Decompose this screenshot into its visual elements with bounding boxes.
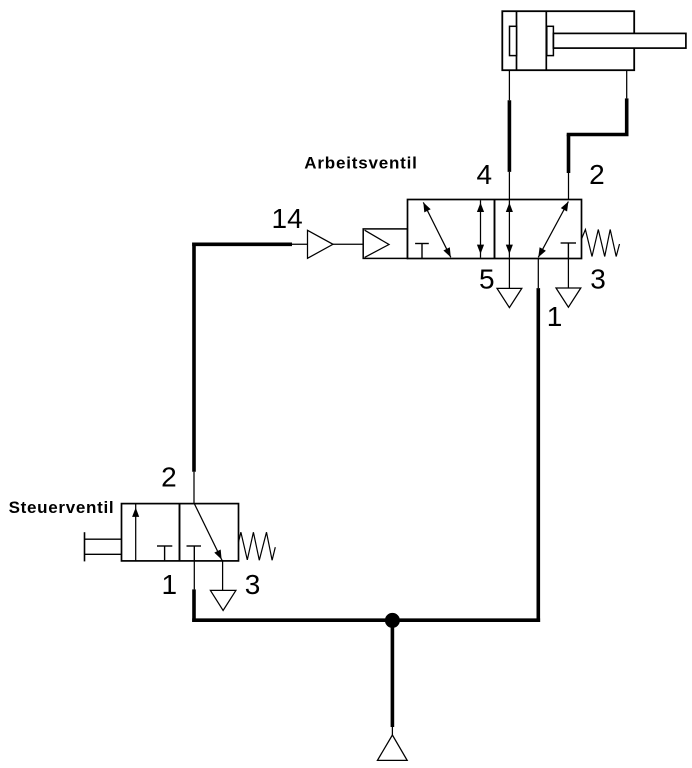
- pilot actuator triangle: [365, 230, 389, 257]
- valve V2 left box blocked port T: [157, 546, 172, 561]
- wire 14 horizontal (thick): [192, 243, 292, 247]
- svg-text:1: 1: [547, 301, 563, 332]
- compressed air source triangle: [377, 735, 407, 760]
- valve V2 right box blocked port T (1): [187, 546, 202, 561]
- exhaust 5 stub: [508, 259, 510, 289]
- exhaust 3 stub: [567, 259, 569, 289]
- valve V1 body (5/2 Arbeitsventil): [408, 200, 582, 259]
- valve V1 return spring: [582, 230, 620, 257]
- cylinder body (double-acting): [502, 11, 634, 70]
- svg-text:Arbeitsventil: Arbeitsventil: [304, 154, 417, 173]
- valve V1 left box vertical flow arrow: [477, 200, 484, 257]
- junction node: [385, 613, 400, 628]
- svg-text:5: 5: [479, 264, 495, 295]
- cylinder left cushion rectangle: [510, 26, 517, 55]
- wire port4 stub at valve: [508, 172, 510, 200]
- valve V1 left box blocked port T (5): [415, 244, 429, 259]
- exhaust 5 triangle: [497, 288, 522, 307]
- valve V2 chamber divider: [179, 504, 181, 561]
- valve V1 right box vertical flow arrow (4-5): [506, 200, 513, 257]
- svg-text:1: 1: [162, 569, 178, 600]
- svg-text:3: 3: [590, 264, 606, 295]
- svg-text:2: 2: [589, 159, 605, 190]
- wire port2 horizontal (thick): [567, 133, 629, 137]
- pilot connector line: [333, 243, 363, 245]
- pilot signal triangle: [308, 230, 334, 258]
- wire source vertical (thick): [391, 620, 395, 727]
- cylinder piston rod: [553, 33, 686, 48]
- exhaust 3 triangle: [556, 288, 581, 307]
- svg-text:14: 14: [272, 203, 303, 234]
- svg-text:4: 4: [477, 159, 493, 190]
- cylinder piston cushion rectangle: [547, 26, 554, 55]
- wire port4 to cylinder (thick): [508, 100, 512, 172]
- wire port1 V2 stub: [193, 561, 195, 590]
- exhaust V2 stub: [222, 561, 224, 591]
- svg-text:Steuerventil: Steuerventil: [9, 498, 115, 517]
- wire 14 stub at valve V2 port 2: [193, 472, 195, 504]
- wire 14 vertical (thick): [192, 243, 196, 472]
- svg-text:2: 2: [161, 462, 177, 493]
- cylinder piston line: [545, 11, 547, 70]
- wire port2 stub at cylinder: [626, 70, 628, 98]
- wire port2 stub at valve: [568, 172, 570, 200]
- svg-text:3: 3: [245, 569, 261, 600]
- valve V2 right box diagonal flow arrow (2-3): [194, 504, 222, 561]
- wire 14 stub at pilot triangle: [290, 243, 307, 245]
- wire port2 vertical (thick): [567, 135, 571, 174]
- valve V2 body (3/2 Steuerventil): [122, 504, 239, 561]
- valve V2 left box vertical flow arrow: [132, 504, 139, 561]
- valve V1 chamber divider: [494, 200, 496, 259]
- valve V1 left box diagonal flow arrow: [423, 202, 451, 257]
- wire port1 stub at valve V1: [537, 259, 539, 289]
- valve V1 right box diagonal flow arrow (1-2): [538, 202, 568, 258]
- cylinder left end-cap divider: [516, 11, 518, 70]
- pilot actuator box: [363, 229, 407, 259]
- wire bottom manifold (thick): [192, 618, 540, 622]
- valve V1 right box blocked port T (3): [561, 243, 576, 259]
- wire port2 riser (thick): [625, 98, 629, 136]
- wire port1 V2 vertical (thick): [192, 589, 196, 622]
- exhaust V2 triangle: [210, 590, 236, 610]
- pushbutton actuator: [85, 532, 122, 561]
- wire source stub: [391, 727, 393, 736]
- wire port1 vertical (thick): [536, 288, 540, 622]
- wire port4 stub at cylinder: [508, 70, 510, 100]
- valve V2 return spring: [239, 532, 276, 560]
